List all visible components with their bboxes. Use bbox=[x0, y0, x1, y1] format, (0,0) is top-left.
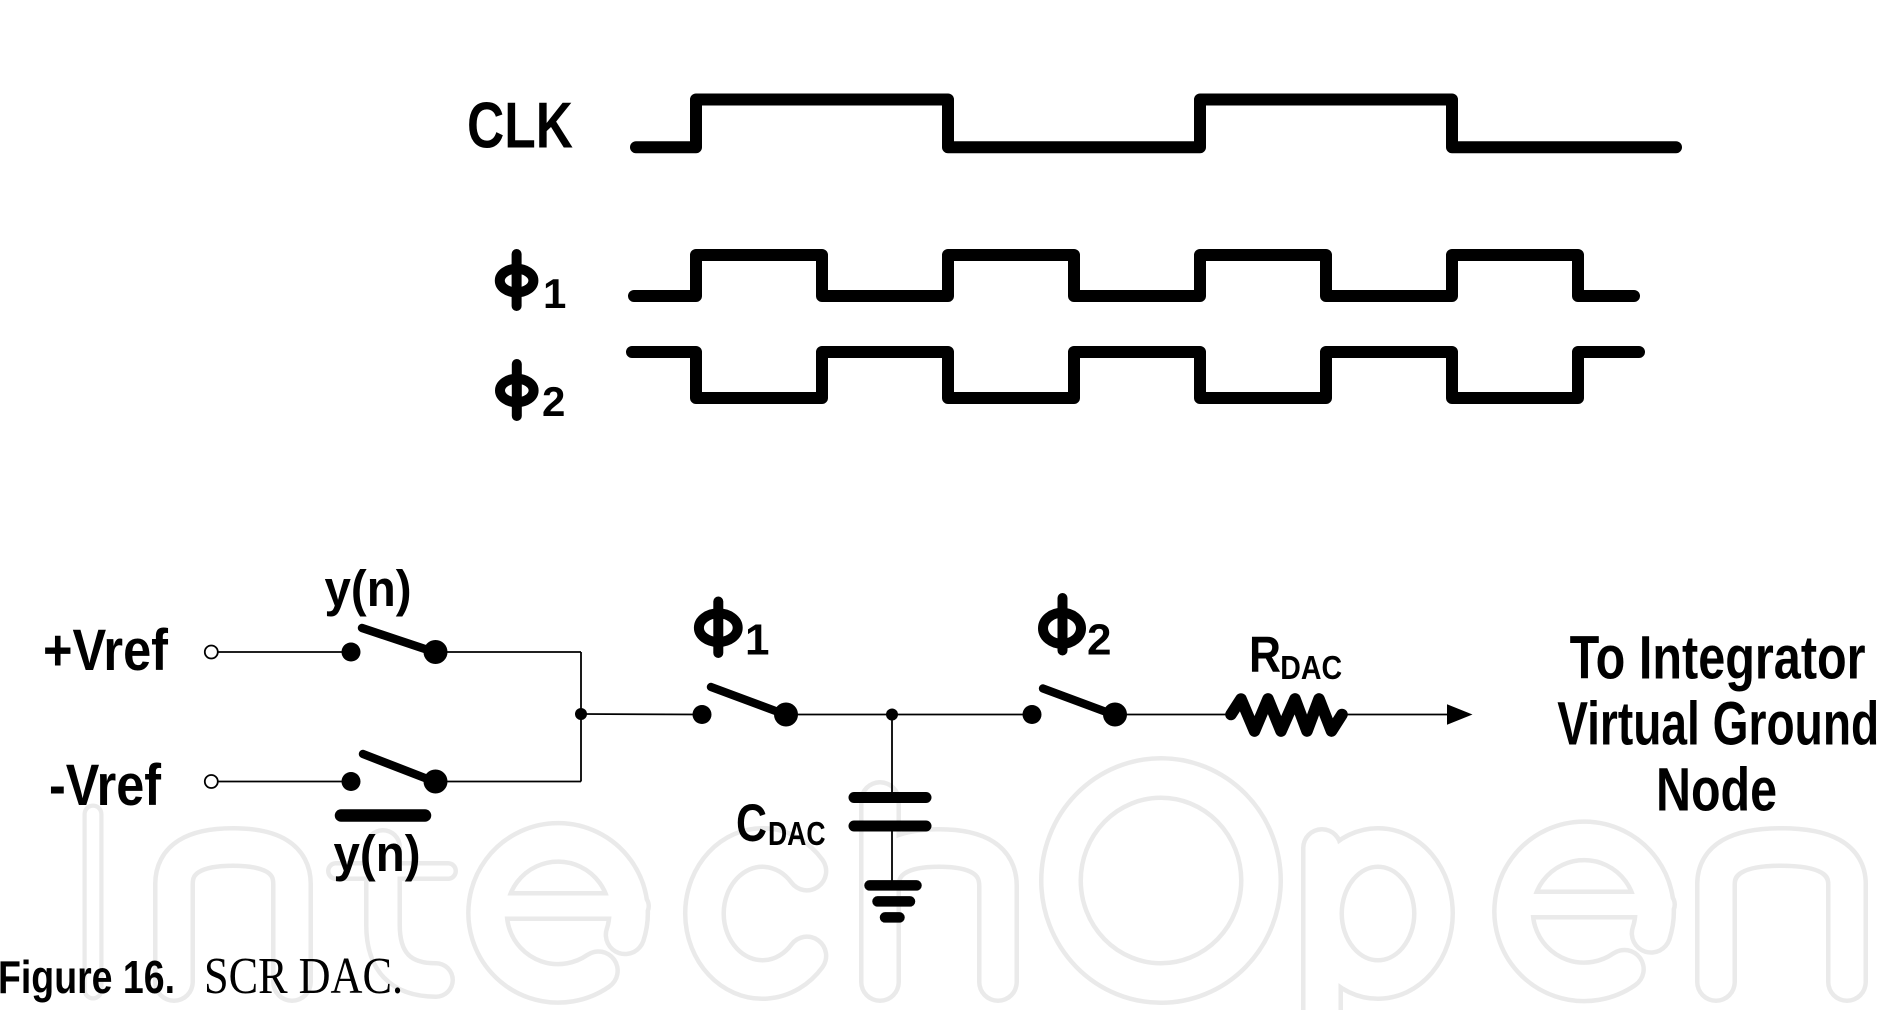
label CDAC bbox=[736, 794, 826, 853]
wire vertical joining branch bbox=[580, 652, 582, 782]
wire upper switch to corner node bbox=[436, 651, 582, 653]
wire lower switch to corner node bbox=[436, 781, 582, 783]
wire junction down to capacitor bbox=[891, 715, 893, 794]
label y(n)-bar overline bbox=[341, 809, 425, 822]
svg-text:1: 1 bbox=[543, 270, 566, 317]
svg-text:DAC: DAC bbox=[1280, 649, 1342, 686]
svg-text:SCR DAC.: SCR DAC. bbox=[204, 948, 403, 1005]
phi2 waveform bbox=[632, 352, 1639, 398]
node capacitor junction bbox=[886, 709, 898, 721]
wire junction to phi1 switch bbox=[581, 713, 702, 716]
wire -Vref terminal to switch bbox=[218, 781, 351, 783]
wire phi1 switch to phi2 switch bbox=[786, 714, 1032, 716]
svg-text:Virtual Ground: Virtual Ground bbox=[1557, 690, 1879, 758]
CLK waveform bbox=[636, 100, 1676, 148]
wire capacitor to ground bbox=[891, 826, 893, 882]
caption Figure 16. SCR DAC. bbox=[0, 948, 403, 1005]
label To Integrator Virtual Ground Node bbox=[1557, 624, 1879, 824]
label phi2 (circuit) bbox=[1043, 598, 1111, 665]
switch y(n) (upper) bbox=[342, 628, 448, 664]
svg-text:R: R bbox=[1249, 626, 1281, 683]
wire +Vref terminal to switch bbox=[218, 651, 351, 653]
svg-text:y(n): y(n) bbox=[334, 825, 421, 882]
phi1 waveform bbox=[634, 255, 1634, 296]
svg-text:+Vref: +Vref bbox=[43, 618, 169, 683]
switch phi1 bbox=[693, 687, 799, 727]
resistor RDAC bbox=[1231, 699, 1342, 731]
switch y(n)-bar (lower) bbox=[342, 754, 448, 794]
svg-text:Figure 16.: Figure 16. bbox=[0, 951, 175, 1003]
svg-text:C: C bbox=[736, 794, 767, 853]
svg-text:-Vref: -Vref bbox=[49, 753, 162, 818]
svg-text:DAC: DAC bbox=[768, 815, 826, 852]
svg-text:CLK: CLK bbox=[467, 90, 573, 162]
label phi1 (circuit) bbox=[699, 602, 770, 665]
wire phi2 switch to resistor bbox=[1115, 714, 1231, 716]
label phi2 (timing) bbox=[500, 364, 565, 425]
switch phi2 bbox=[1023, 689, 1128, 727]
svg-text:2: 2 bbox=[542, 378, 565, 425]
arrowhead to integrator bbox=[1447, 704, 1473, 724]
terminal -Vref (open circle) bbox=[205, 775, 218, 788]
ground bbox=[870, 885, 917, 917]
label RDAC bbox=[1249, 626, 1342, 686]
svg-text:1: 1 bbox=[745, 616, 769, 665]
node branch junction bbox=[575, 708, 587, 720]
label phi1 (timing) bbox=[500, 254, 567, 317]
capacitor CDAC bbox=[854, 798, 926, 827]
wire resistor to arrow bbox=[1342, 714, 1448, 716]
svg-text:2: 2 bbox=[1087, 616, 1111, 665]
watermark IntechOpen bbox=[93, 778, 1847, 1010]
svg-text:Node: Node bbox=[1656, 756, 1777, 824]
terminal +Vref (open circle) bbox=[205, 646, 218, 659]
svg-text:To Integrator: To Integrator bbox=[1570, 624, 1866, 692]
svg-text:y(n): y(n) bbox=[325, 560, 412, 617]
